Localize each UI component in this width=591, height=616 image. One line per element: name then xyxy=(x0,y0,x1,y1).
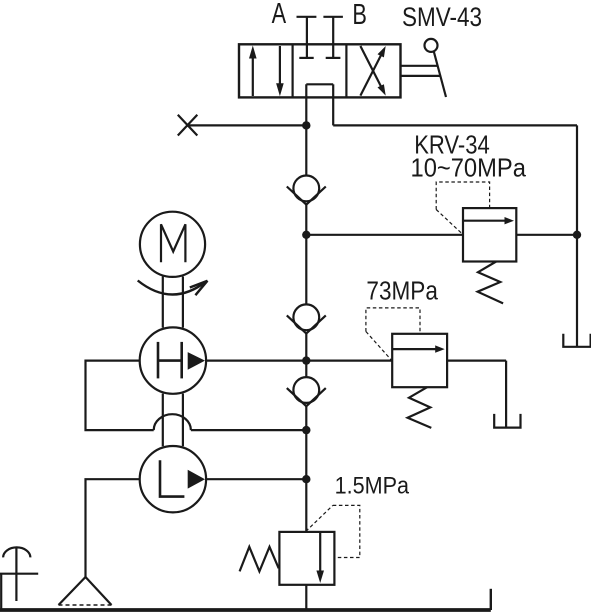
svg-text:10~70MPa: 10~70MPa xyxy=(411,152,527,182)
svg-text:B: B xyxy=(352,0,367,31)
svg-text:SMV-43: SMV-43 xyxy=(402,2,482,32)
svg-text:73MPa: 73MPa xyxy=(366,277,438,305)
svg-text:1.5MPa: 1.5MPa xyxy=(335,473,410,500)
svg-text:A: A xyxy=(272,0,287,30)
